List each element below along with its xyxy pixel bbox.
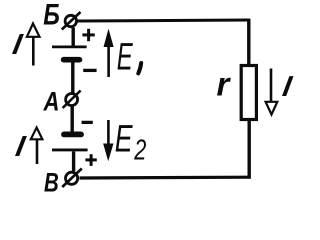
wire stub E2 to B: [72, 152, 75, 172]
arrow I bottom-left (open head): [31, 128, 43, 165]
svg-text:2: 2: [133, 135, 146, 167]
wire top: [78, 20, 250, 21]
terminal Б (circle with slash): [62, 12, 81, 30]
arrow I top-left (open head): [27, 24, 40, 66]
terminal B (circle with slash): [62, 169, 82, 188]
wire stub E1 to A: [71, 62, 74, 93]
svg-text:E: E: [115, 117, 134, 160]
minus sign E1: [83, 69, 96, 72]
terminal A (circle with slash): [63, 91, 81, 109]
plus sign E2: [85, 154, 96, 166]
battery E1 long plate (+): [52, 46, 87, 49]
arrow I right (open head): [266, 69, 278, 115]
arrow E1 (filled, up): [104, 31, 113, 78]
svg-text:В: В: [44, 168, 59, 196]
wire stub Б to E1: [71, 28, 74, 46]
battery E2 short plate (-): [64, 131, 81, 137]
svg-text:A: A: [43, 88, 60, 118]
plus sign E1: [82, 29, 94, 41]
wire right lower: [247, 121, 250, 179]
svg-text:Б: Б: [43, 0, 60, 31]
svg-text:E: E: [117, 35, 134, 78]
wire bottom: [80, 176, 251, 180]
arrow E2 (filled, down): [104, 120, 113, 160]
resistor r: [241, 66, 256, 120]
wire stub A to E2: [70, 107, 73, 132]
minus sign E2: [82, 121, 93, 124]
svg-text:r: r: [217, 66, 232, 103]
wire right upper: [247, 19, 250, 65]
battery E2 long plate (+): [52, 148, 88, 151]
battery E1 short plate (-): [64, 57, 80, 63]
